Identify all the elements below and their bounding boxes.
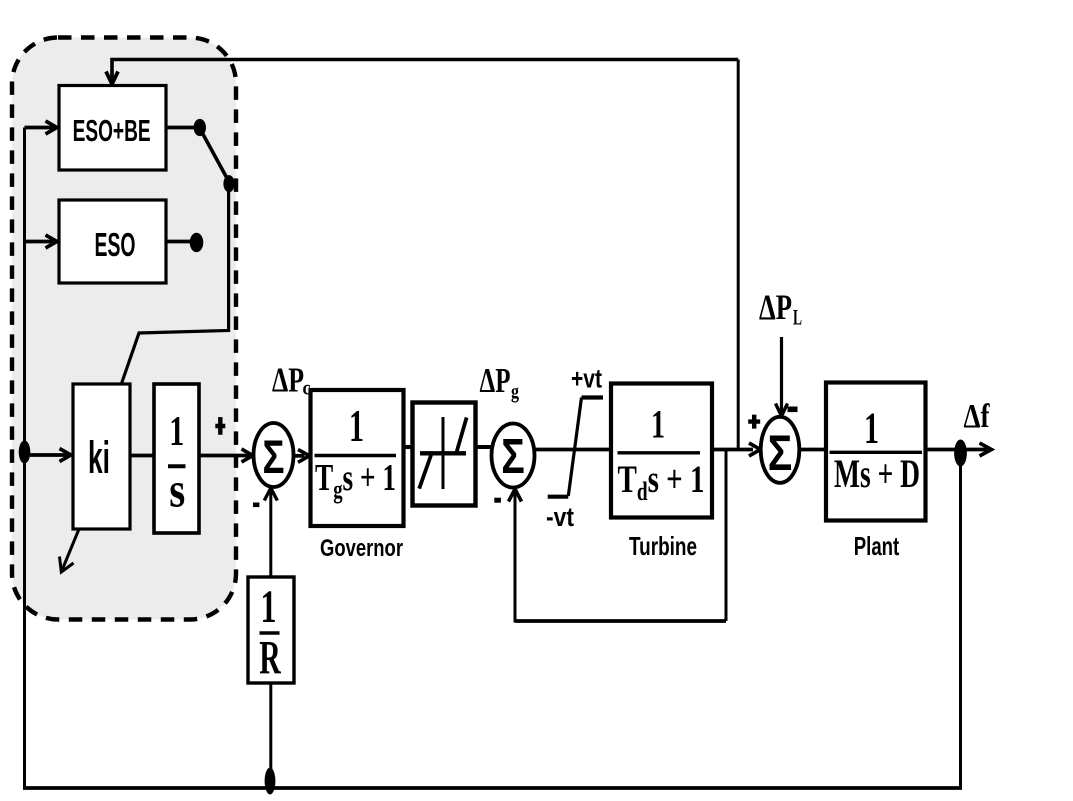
svg-text:ki: ki: [88, 432, 110, 483]
wire: dead-band block to summer 2: [476, 445, 493, 449]
block 1/R droop: [248, 577, 294, 683]
svg-text:1: 1: [349, 400, 364, 451]
wire: left rail of Delta-f feedback: [23, 128, 26, 789]
node: output junction dot: [954, 440, 967, 467]
block ki: [73, 384, 130, 529]
svg-text:ΔP: ΔP: [480, 361, 511, 400]
wire: ESO output stub: [166, 240, 192, 244]
svg-text:R: R: [259, 631, 281, 684]
rate limiter symbol on turbine input: [568, 398, 581, 497]
svg-text:1: 1: [651, 401, 665, 446]
block ESO: [59, 200, 166, 283]
svg-text:1: 1: [261, 581, 277, 633]
node: junction dot on bottom rail: [265, 768, 276, 795]
wire: input arrow into ESO: [25, 240, 54, 244]
wire: right rail from output dot down to bottom rail: [959, 450, 962, 788]
svg-text:g: g: [511, 379, 519, 403]
svg-text:ΔP: ΔP: [272, 361, 304, 400]
svg-text:1: 1: [864, 404, 879, 453]
block Governor transfer function: [311, 390, 404, 526]
node: open switch contact dot at ESO output: [190, 233, 204, 253]
wire: Plant output with Delta-f arrow: [926, 448, 988, 452]
node: switch pole dot: [223, 175, 234, 192]
svg-text:1: 1: [169, 409, 184, 455]
label: plus sign at summer 3 input: [748, 415, 760, 429]
block 1/s integrator: [154, 384, 199, 533]
label: plus sign at summer 1 input: [215, 417, 225, 435]
summer 2 (Sigma): [492, 424, 535, 488]
wire: Governor to dead-band block: [404, 445, 413, 449]
summer 1 (Sigma): [254, 423, 294, 487]
label: minus sign below summer 1: [253, 503, 259, 508]
svg-text:Σ: Σ: [501, 430, 525, 484]
wire: ki to 1/s: [130, 454, 154, 458]
wire: summer 3 to Plant: [800, 448, 827, 452]
wire: summer 2 to Turbine: [535, 448, 612, 452]
wire: arrow out of ki bottom-left pointing down-left: [63, 529, 80, 569]
wire: Delta-PL load disturbance arrow into summer 3: [780, 337, 783, 412]
svg-text:L: L: [793, 305, 802, 330]
wire: 1/R down to bottom rail: [269, 683, 272, 788]
wire: input arrow into ki: [25, 453, 68, 457]
svg-text:Tds + 1: Tds + 1: [618, 458, 705, 506]
wire: ESO+BE output stub: [166, 126, 196, 130]
block Turbine transfer function: [611, 384, 712, 518]
wire: top feedback line from turbine output into ESO+BE: [112, 60, 738, 85]
svg-text:ESO: ESO: [95, 226, 136, 263]
wire: 1/R up into summer 1 minus input: [269, 492, 272, 577]
node: junction dot on left rail at ki input: [19, 441, 31, 464]
wire: bottom rail of Delta-f feedback: [23, 786, 962, 790]
wire: 1/s to summer 1: [199, 454, 249, 458]
wire: Turbine to summer 3: [712, 448, 753, 452]
svg-text:Governor: Governor: [320, 535, 403, 562]
block ESO+BE: [59, 86, 166, 171]
summer 3 (Sigma): [761, 417, 800, 483]
wire: from switch pole down and across to ki block: [121, 184, 229, 385]
svg-text:Plant: Plant: [854, 531, 900, 561]
dashed controller region: [12, 38, 236, 620]
label: minus sign below summer 2: [494, 498, 501, 503]
node: switch contact dot at ESO+BE output: [194, 119, 206, 136]
wire: input arrow into ESO+BE: [25, 126, 54, 130]
svg-text:Tgs + 1: Tgs + 1: [315, 457, 396, 504]
wire: feedback tap from turbine output down to summer 2: [725, 450, 728, 622]
wire: summer 1 to Governor: [294, 454, 305, 458]
svg-text:ESO+BE: ESO+BE: [73, 113, 151, 148]
label: minus sign at summer 3 top: [788, 407, 798, 413]
block Plant transfer function: [826, 383, 926, 521]
svg-text:Σ: Σ: [263, 430, 285, 483]
svg-text:c: c: [303, 376, 311, 400]
svg-text:Ms + D: Ms + D: [834, 451, 920, 496]
block governor dead-band nonlinearity: [413, 403, 476, 506]
wire: switch blade from ESO+BE contact down to pole: [202, 132, 229, 181]
svg-text:-vt: -vt: [546, 502, 574, 532]
svg-text:s: s: [169, 462, 185, 518]
svg-text:ΔP: ΔP: [759, 287, 792, 327]
svg-text:+vt: +vt: [571, 364, 602, 394]
svg-text:Δf: Δf: [964, 398, 991, 435]
svg-text:Σ: Σ: [768, 425, 793, 481]
svg-text:Turbine: Turbine: [629, 531, 697, 561]
